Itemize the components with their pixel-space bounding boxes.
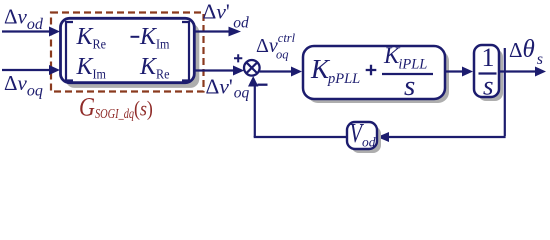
PI controller block shadow: [307, 50, 449, 103]
svg-text:GSOGI_dq(s): GSOGI_dq(s): [79, 94, 153, 122]
wire input bottom: [2, 69, 52, 71]
feedback gain block V_od shadow: [351, 126, 381, 153]
wire feedback bottom left segment: [254, 136, 347, 138]
wire sum to PI block: [260, 70, 297, 72]
gain matrix block U1 (SOGI dq frame) shadow: [66, 24, 200, 88]
integrator block 1/s shadow: [478, 49, 503, 101]
svg-text:oq: oq: [276, 48, 289, 62]
wire output Δθ_s: [499, 70, 538, 72]
matrix entry -KIm row1: [131, 36, 140, 38]
wire feedback bottom right segment: [382, 136, 506, 138]
svg-text:1: 1: [482, 43, 495, 72]
feedback gain block V_od body: [347, 122, 377, 149]
svg-text:s: s: [404, 70, 415, 102]
matrix right bracket: [182, 22, 189, 81]
integrator block 1/s body: [474, 45, 499, 97]
fraction bar: [382, 73, 433, 75]
svg-text:s: s: [483, 71, 494, 101]
svg-text:Δθs: Δθs: [509, 36, 543, 68]
matrix left bracket: [66, 22, 73, 81]
svg-text:Δvoq: Δvoq: [4, 71, 43, 100]
wire feedback vertical up to summing junction: [254, 85, 256, 137]
integrator fraction bar: [479, 72, 497, 74]
wire output top Δv'_od: [194, 30, 230, 32]
svg-text:od: od: [362, 135, 376, 150]
plus sign: [234, 54, 242, 62]
dashed box G_SOGI_dq: [51, 13, 204, 92]
wire input top: [2, 30, 52, 32]
wire output bottom to summing junction: [194, 69, 235, 71]
gain matrix block U1 body: [61, 18, 195, 82]
minus sign: [258, 84, 268, 86]
PI controller block body: [303, 46, 445, 99]
wire feedback vertical drop: [504, 48, 506, 136]
wire PI to integrator: [445, 70, 466, 72]
plus in block: [366, 65, 377, 76]
svg-text:Δv'oq: Δv'oq: [206, 74, 250, 101]
summing junction S1: [244, 60, 260, 76]
svg-text:Δv'od: Δv'od: [203, 0, 250, 32]
svg-text:Δvod: Δvod: [4, 5, 44, 34]
